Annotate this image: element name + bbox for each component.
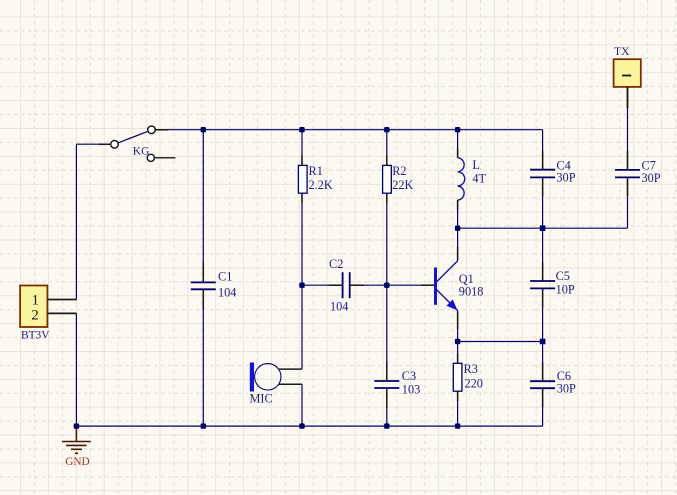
ground bar 2 bbox=[66, 444, 87, 446]
wire: collector vertical bbox=[457, 228, 459, 260]
value 30P (C6) bbox=[557, 382, 576, 396]
resistor R3 pin stubs bbox=[457, 353, 459, 401]
svg-text:4T: 4T bbox=[472, 171, 486, 185]
junction collector node bbox=[455, 226, 460, 231]
pin number 1 bbox=[31, 292, 39, 308]
wire: mic minus vertical bbox=[301, 384, 303, 426]
svg-text:C5: C5 bbox=[556, 269, 570, 283]
connector BT3V pin 2 bbox=[47, 312, 76, 314]
svg-text:104: 104 bbox=[218, 285, 236, 299]
wire: left rail lower (BT pin2 to ground rail) bbox=[75, 313, 77, 426]
label R1 bbox=[309, 164, 323, 178]
junction R2 top rail bbox=[384, 127, 389, 132]
resistor R1 bbox=[298, 165, 307, 193]
value 220 (R3) bbox=[465, 376, 483, 390]
resistor R1 pin stubs bbox=[301, 155, 303, 203]
svg-text:220: 220 bbox=[465, 376, 483, 390]
wire: R3 branch upper bbox=[457, 342, 459, 364]
svg-text:22K: 22K bbox=[392, 178, 413, 192]
wire: R1 bottom to base node bbox=[301, 193, 303, 285]
label C7 bbox=[642, 158, 656, 172]
svg-text:MIC: MIC bbox=[250, 392, 273, 406]
resistor R2 pin stubs bbox=[386, 155, 388, 203]
wire: collector rail to C7 branch bbox=[458, 227, 628, 229]
svg-text:2.2K: 2.2K bbox=[309, 178, 333, 192]
capacitor C4 pin stubs bbox=[542, 151, 544, 197]
wire: C1 branch upper bbox=[202, 130, 204, 283]
value 104 (C2) bbox=[330, 299, 348, 313]
pin number 2 bbox=[31, 307, 39, 323]
switch KG terminal bottom bbox=[147, 154, 154, 161]
svg-text:R1: R1 bbox=[309, 164, 323, 178]
transistor Q1 pin stubs bbox=[421, 247, 458, 329]
capacitor C5 pin stubs bbox=[542, 262, 544, 307]
svg-text:C2: C2 bbox=[329, 257, 343, 271]
ground bar 1 bbox=[62, 441, 91, 443]
wire: R2 branch top bbox=[386, 130, 388, 166]
label TX bbox=[614, 45, 630, 58]
label C6 bbox=[557, 369, 571, 383]
label Q1 bbox=[459, 272, 474, 286]
wire: C6 to ground rail bbox=[542, 388, 544, 426]
value 30P (C7) bbox=[642, 171, 661, 185]
svg-text:KG: KG bbox=[133, 145, 150, 157]
capacitor C2 bbox=[343, 272, 350, 298]
wire: C1 branch lower bbox=[202, 289, 204, 426]
svg-text:30P: 30P bbox=[556, 171, 575, 185]
value 22K (R2) bbox=[392, 178, 413, 192]
wire: emitter rail bbox=[458, 341, 543, 343]
svg-text:GND: GND bbox=[65, 456, 89, 468]
inductor L 4T bbox=[458, 158, 465, 200]
wire: C4 to collector rail bbox=[542, 177, 544, 228]
junction ground GND tap bbox=[74, 423, 79, 428]
svg-text:C1: C1 bbox=[218, 270, 232, 284]
connector TX body bbox=[614, 59, 641, 87]
wire: left rail upper (switch to BT pin1) bbox=[75, 144, 77, 299]
wire: emitter vertical bbox=[457, 311, 459, 342]
microphone MIC pin minus bbox=[279, 383, 302, 385]
microphone MIC body bbox=[255, 364, 281, 390]
wire: mic plus vertical bbox=[301, 285, 303, 369]
capacitor C7 bbox=[615, 170, 640, 178]
junction C4-C5 node bbox=[540, 225, 546, 231]
wire: C5 to emitter rail bbox=[542, 288, 544, 341]
value 104 (C1) bbox=[218, 285, 236, 299]
ground stub bbox=[75, 428, 77, 442]
wire: C4 branch upper bbox=[542, 130, 544, 170]
junction base node R1-C2 bbox=[299, 283, 304, 288]
switch KG terminal pole bbox=[111, 141, 119, 149]
label C1 bbox=[218, 270, 232, 284]
label C5 bbox=[556, 269, 570, 283]
wire: L bottom to collector node bbox=[457, 200, 459, 228]
value 2.2K (R1) bbox=[309, 178, 333, 192]
ground net label GND bbox=[65, 456, 89, 468]
junction C5-C6 node bbox=[540, 339, 546, 345]
label C4 bbox=[556, 158, 570, 172]
label BT3V bbox=[21, 329, 50, 341]
svg-text:103: 103 bbox=[402, 383, 420, 397]
wire: base row left (node to C2) bbox=[302, 284, 343, 286]
capacitor C1 pin stubs bbox=[202, 262, 204, 309]
connector BT3V body bbox=[20, 286, 47, 328]
capacitor C1 bbox=[191, 282, 216, 289]
wire: R3 branch lower bbox=[457, 391, 459, 426]
switch KG terminal top bbox=[148, 126, 156, 134]
switch KG label bbox=[133, 145, 150, 157]
junction ground R3 bbox=[455, 423, 460, 428]
svg-text:30P: 30P bbox=[557, 382, 576, 396]
svg-text:104: 104 bbox=[330, 299, 348, 313]
svg-text:R3: R3 bbox=[464, 362, 478, 376]
value 103 (C3) bbox=[402, 383, 420, 397]
wire: base row mid (C2 to R2 node) bbox=[350, 284, 387, 286]
wire: R1 branch top bbox=[301, 130, 303, 166]
switch KG wire stub bbox=[155, 157, 176, 159]
wire: ground rail bbox=[76, 425, 542, 427]
transistor Q1 collector lead bbox=[436, 261, 458, 283]
wire: C3 branch upper bbox=[386, 285, 388, 381]
switch KG pin stub right bbox=[155, 129, 168, 131]
ground bar 4 bbox=[75, 452, 78, 454]
transistor Q1 emitter lead bbox=[436, 289, 458, 311]
wire: top supply rail bbox=[154, 129, 542, 131]
junction L top rail bbox=[455, 127, 460, 132]
svg-text:30P: 30P bbox=[642, 171, 661, 185]
svg-text:TX: TX bbox=[614, 45, 630, 58]
microphone MIC plate bbox=[250, 363, 254, 392]
connector TX pin mark bbox=[622, 75, 631, 77]
label R2 bbox=[392, 164, 406, 178]
junction R1 top rail bbox=[299, 127, 304, 132]
junction emitter node bbox=[455, 339, 460, 344]
capacitor C2 pin stubs bbox=[329, 284, 364, 286]
svg-text:L: L bbox=[472, 158, 480, 172]
value 10P (C5) bbox=[556, 282, 575, 296]
capacitor C6 bbox=[530, 381, 555, 388]
inductor L pin stubs bbox=[457, 148, 459, 210]
connector BT3V pin 1 bbox=[47, 299, 76, 301]
switch KG blade bbox=[118, 131, 148, 143]
capacitor C7 pin stubs bbox=[627, 151, 629, 197]
junction C1 top rail bbox=[201, 127, 206, 132]
wire: C7 to collector rail bbox=[627, 177, 629, 228]
wire: L top bbox=[457, 130, 459, 158]
svg-text:BT3V: BT3V bbox=[21, 329, 50, 341]
junction ground MIC bbox=[299, 423, 304, 428]
resistor R2 bbox=[383, 165, 392, 193]
svg-text:1: 1 bbox=[31, 292, 39, 308]
label C3 bbox=[402, 369, 416, 383]
junction ground C3 bbox=[384, 423, 389, 428]
label R3 bbox=[464, 362, 478, 376]
value 30P (C4) bbox=[556, 171, 575, 185]
resistor R3 bbox=[453, 363, 462, 391]
value 9018 (Q1) bbox=[459, 285, 484, 299]
capacitor C5 bbox=[530, 281, 555, 288]
switch KG pin stub left bbox=[99, 143, 111, 145]
junction base node R2-C3 bbox=[384, 283, 389, 288]
microphone MIC pin plus bbox=[279, 368, 302, 370]
junction ground C1 bbox=[201, 423, 206, 428]
capacitor C3 bbox=[374, 381, 399, 388]
wire: TX to C7 bbox=[627, 87, 629, 170]
wire: C6 branch upper bbox=[542, 342, 544, 382]
capacitor C3 pin stubs bbox=[386, 361, 388, 408]
value 4T (L) bbox=[472, 171, 486, 185]
wire: switch pole to left rail bbox=[76, 143, 110, 145]
label MIC bbox=[250, 392, 273, 406]
capacitor C6 pin stubs bbox=[542, 362, 544, 407]
svg-text:10P: 10P bbox=[556, 282, 575, 296]
svg-text:C3: C3 bbox=[402, 369, 416, 383]
svg-text:R2: R2 bbox=[392, 164, 406, 178]
label L bbox=[472, 158, 480, 172]
svg-text:2: 2 bbox=[31, 307, 39, 323]
wire: C5 branch upper bbox=[542, 228, 544, 281]
svg-text:9018: 9018 bbox=[459, 285, 484, 299]
connector TX pin stub bbox=[627, 87, 629, 108]
wire: R2 bottom to base node bbox=[386, 193, 388, 285]
label C2 bbox=[329, 257, 343, 271]
ground bar 3 bbox=[71, 448, 82, 450]
wire: C3 branch lower bbox=[386, 388, 388, 426]
transistor Q1 emitter arrow bbox=[446, 299, 457, 310]
wire: base row right (node to Q1 base) bbox=[387, 284, 434, 286]
transistor Q1 base bar bbox=[434, 268, 437, 305]
capacitor C4 bbox=[530, 170, 555, 178]
